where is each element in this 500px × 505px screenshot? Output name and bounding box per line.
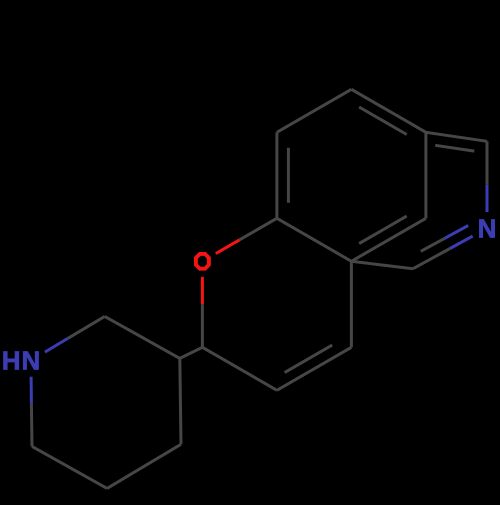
bond C3n-N2 inner blue — [445, 226, 469, 239]
bond P1-V inner — [359, 107, 407, 135]
bond N2-C1n gray half — [486, 141, 489, 185]
bond C4p-G6 — [350, 261, 353, 347]
bond C6q-pN blue half — [30, 377, 33, 404]
bond O1-A red half — [216, 240, 240, 254]
bond X-C3p — [202, 347, 277, 390]
bond C2q-C3q — [105, 316, 180, 358]
bond G6-A — [277, 218, 352, 261]
bond C3q-C4q — [180, 358, 181, 444]
svg-text:N: N — [22, 345, 41, 375]
bond O1-A gray half — [240, 218, 277, 240]
bond pN-C2q gray half — [68, 316, 105, 338]
bond C1n-V inner — [435, 145, 474, 151]
bond C3q-X link — [180, 347, 203, 358]
bond C1n-V — [426, 132, 487, 141]
bond B-P1 — [277, 89, 352, 132]
bond pN-C2q blue half — [45, 338, 68, 352]
bond G6-C3n — [351, 261, 413, 268]
bond P1-V — [351, 89, 426, 132]
bond C4q-C5q — [107, 444, 181, 488]
bond O1-X red half — [201, 277, 204, 305]
bond O1-X gray half — [201, 304, 204, 347]
bond A-B inner — [287, 148, 290, 203]
bond G5-G6 inner — [359, 216, 407, 244]
bond C3n-N2 blue half — [450, 236, 473, 248]
atom O1 label (octagonal O) — [196, 254, 209, 269]
bond C3p-C4p inner — [285, 345, 333, 373]
svg-text:N: N — [478, 213, 497, 243]
bond C3n-N2 gray half — [413, 249, 450, 269]
bond A-B — [275, 132, 278, 218]
bond N2-C1n blue half — [486, 185, 489, 212]
bond G5-G6 — [351, 218, 426, 261]
bond C3p-C4p — [277, 347, 352, 390]
bond C5q-C6q — [32, 446, 107, 488]
bond C3n-N2 inner gray — [421, 238, 445, 251]
bond C6q-pN gray half — [30, 403, 34, 446]
bond V-G5 — [424, 132, 427, 218]
svg-text:H: H — [2, 345, 21, 375]
